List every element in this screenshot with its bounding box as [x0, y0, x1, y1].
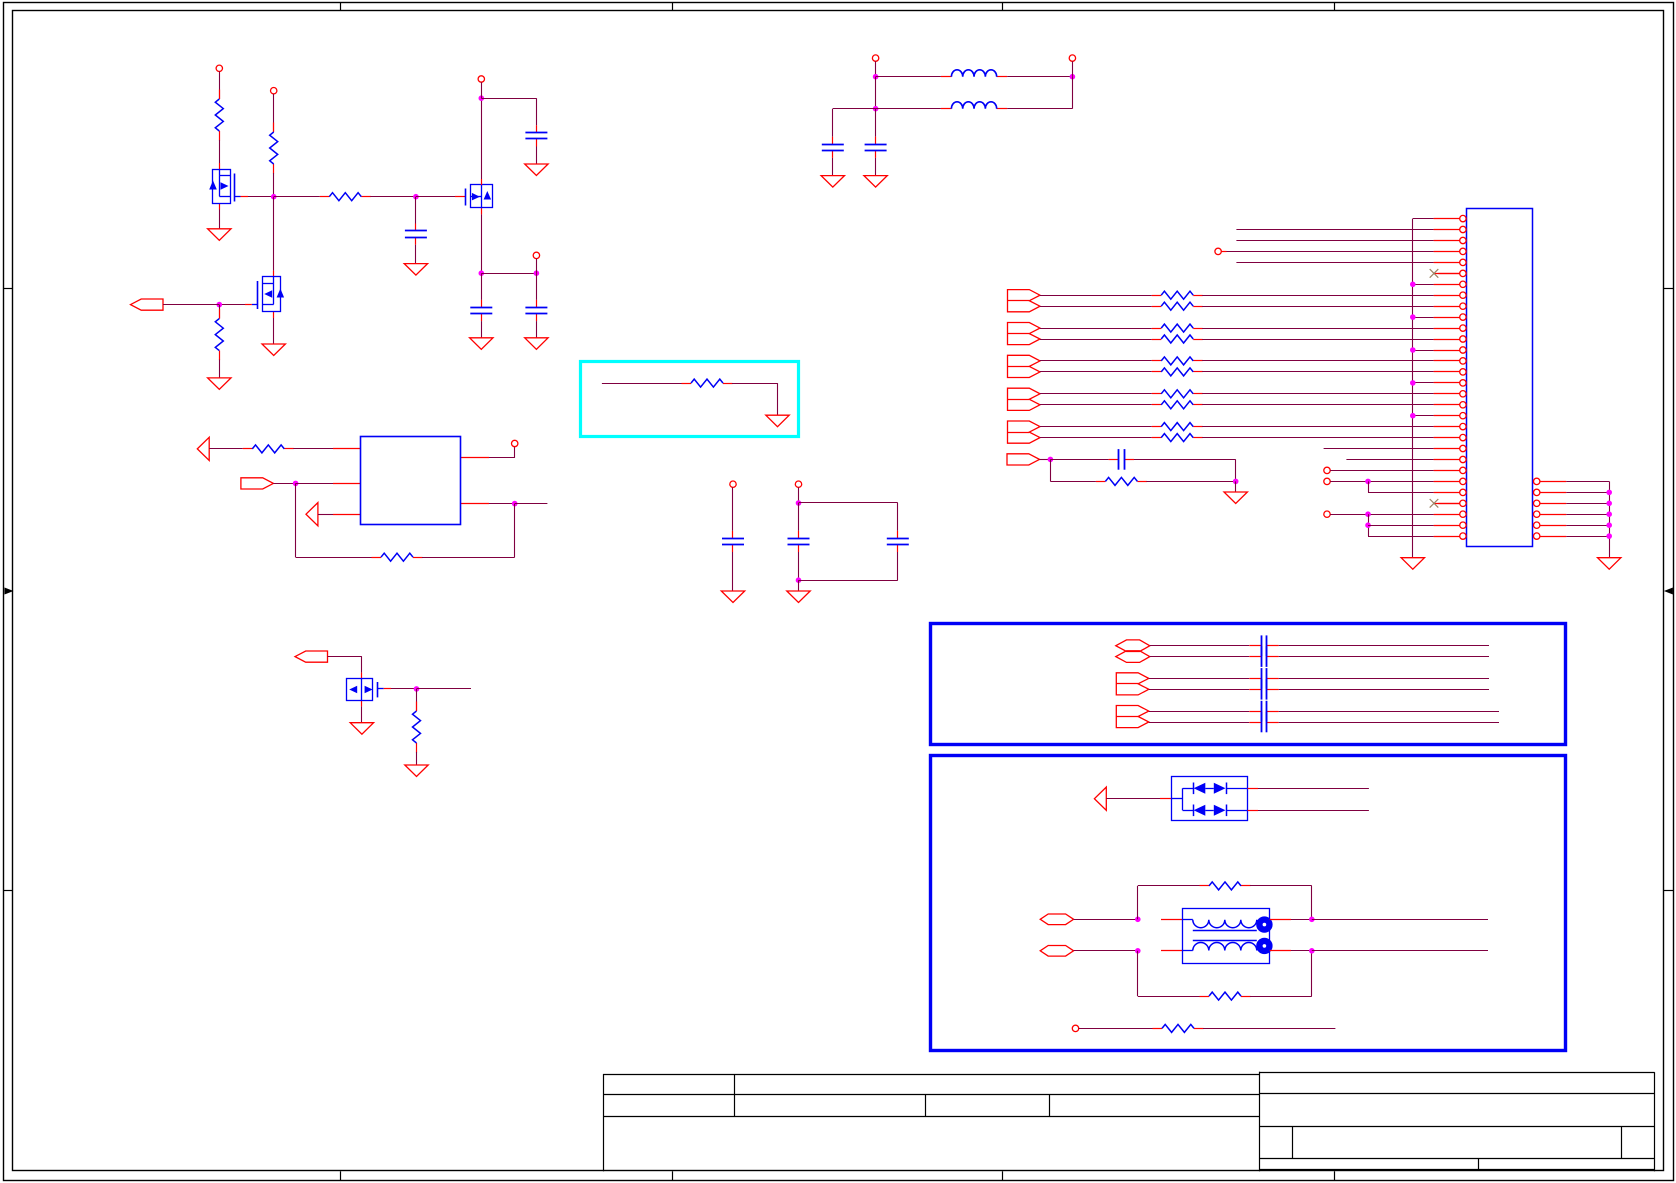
wire ACPAIR2 B to C14	[1149, 689, 1249, 691]
wire pin4	[1227, 251, 1434, 253]
wire node E to C3	[481, 273, 483, 300]
port tag EN	[295, 651, 328, 662]
wire RPAIR1A to pin8	[1202, 295, 1433, 297]
capacitor C16	[1249, 722, 1261, 724]
port tag SHIELD	[1007, 454, 1040, 465]
terminal T7	[730, 481, 736, 487]
wire node D to C1	[481, 98, 536, 100]
wire feedback node G down	[295, 483, 297, 557]
inductor L1	[941, 76, 952, 78]
terminal T9	[872, 55, 878, 61]
junction node L	[873, 74, 879, 80]
wire C14 right	[1279, 689, 1489, 691]
terminal T1	[216, 65, 222, 71]
port diamond LINEN	[1040, 946, 1073, 957]
resistor RPAIR4A	[1152, 393, 1162, 395]
wire node K to ground	[798, 580, 800, 591]
connector J1 body	[1467, 209, 1533, 547]
wire OUT1 to U1 pin3	[318, 514, 333, 516]
terminal T3	[478, 76, 484, 82]
group box 1	[931, 624, 1566, 745]
resistor RPAIR1A	[1152, 295, 1162, 297]
wire C13 right	[1279, 678, 1489, 680]
wire Q4 source to ground	[361, 706, 363, 722]
terminal T6	[512, 440, 518, 446]
wire C4 to ground	[536, 321, 538, 338]
junction node B	[217, 302, 223, 308]
wire R15 to node V	[1250, 996, 1312, 998]
ground below C9	[864, 176, 887, 188]
wire LINEN to node T	[1074, 950, 1138, 952]
wire PAIR3 B to resistor	[1040, 371, 1152, 373]
wire pin2 net stub	[1236, 229, 1433, 231]
wire T7 to C5	[732, 487, 734, 530]
wire EN to Q4 drain	[328, 656, 362, 658]
junction node V	[1309, 948, 1315, 954]
wire CTRL to node G	[273, 483, 295, 485]
wire node P29 to pin29	[1368, 525, 1434, 527]
junction node Q	[1048, 457, 1054, 463]
wire ACPAIR2 A to C13	[1149, 678, 1249, 680]
resistor RPAIR5A	[1152, 426, 1162, 428]
capacitor C6	[798, 531, 800, 539]
wire PAIR3 A to resistor	[1040, 360, 1152, 362]
wire node P30 to pin30	[1368, 536, 1434, 538]
resistor R1	[219, 90, 221, 100]
wire PAIR2 B to resistor	[1040, 339, 1152, 341]
junction bus pin19	[1413, 415, 1434, 417]
ground below node K	[787, 591, 810, 603]
wire stub to R7	[602, 383, 682, 385]
wire T9 to node L	[875, 61, 877, 76]
junction bus pin13	[1413, 350, 1434, 352]
resistor R13	[1096, 481, 1106, 483]
port tag PAIR3	[1008, 355, 1041, 377]
wire L2 to node M	[1007, 108, 1072, 110]
wire T15 to R16	[1079, 1028, 1153, 1030]
tvs diode array D1	[1160, 798, 1171, 800]
port arrow IN1	[197, 437, 209, 460]
wire RPAIR5A to pin20	[1202, 426, 1433, 428]
capacitor C13	[1249, 678, 1261, 680]
junction node U	[1309, 917, 1315, 923]
junction right bus pin28	[1606, 511, 1612, 517]
wire node L to L1	[876, 76, 941, 78]
capacitor C15	[1249, 711, 1261, 713]
wire Q4 gate to node I	[391, 688, 417, 690]
junction node P25	[1365, 479, 1371, 485]
capacitor C10	[1109, 459, 1119, 461]
junction node J	[796, 500, 802, 506]
wire C7 to node K	[897, 552, 899, 580]
wire Q2 gate to node B	[219, 304, 245, 306]
port arrow ESD	[1094, 787, 1106, 810]
ground below node R	[1224, 492, 1247, 504]
capacitor C11	[1249, 645, 1261, 647]
border zone ticks bottom	[340, 1171, 342, 1180]
connector J1 left pins	[1434, 218, 1460, 220]
capacitor C9	[875, 137, 877, 145]
capacitor C14	[1249, 689, 1261, 691]
terminal T2	[271, 88, 277, 94]
wire SHIELD to node Q	[1040, 459, 1051, 461]
resistor R4	[219, 309, 221, 319]
wire node T down loop	[1137, 951, 1139, 996]
wire IN1 to R5	[209, 448, 243, 450]
terminal T8	[795, 481, 801, 487]
wire T10 to node M	[1072, 61, 1074, 76]
wire C16 right	[1279, 722, 1499, 724]
wire node B to R4	[219, 305, 221, 319]
ground below R4	[208, 378, 231, 390]
ground below C3	[470, 338, 493, 350]
wire node V right	[1312, 950, 1488, 952]
ground bus vertical	[1412, 219, 1414, 558]
terminal T10	[1069, 55, 1075, 61]
terminal T4	[533, 252, 539, 258]
junction bus pin7	[1413, 284, 1434, 286]
junction right bus pin30	[1606, 533, 1612, 539]
wire LINEP to node S	[1074, 919, 1138, 921]
wire node Q down to R13	[1050, 459, 1052, 481]
wire T3 to node D	[481, 82, 483, 98]
junction right bus pin27	[1606, 501, 1612, 507]
junction node F	[534, 270, 540, 276]
capacitor C2	[415, 224, 417, 232]
wire node N to C9	[875, 109, 877, 137]
border center arrow right	[1664, 588, 1673, 595]
port tag PAIR2	[1008, 323, 1041, 345]
port tag ACPAIR3	[1116, 706, 1149, 728]
wire C1 to ground	[536, 147, 538, 165]
ground below Q4	[350, 723, 373, 735]
wire choke out A to node U	[1291, 919, 1312, 921]
wire Q3 source down	[481, 214, 483, 273]
resistor RPAIR5B	[1152, 437, 1162, 439]
resistor R14	[1200, 885, 1210, 887]
junction node K	[796, 577, 802, 583]
border center arrow left	[5, 588, 14, 595]
ground below C4	[525, 338, 548, 350]
wire L1 to node M	[1007, 76, 1072, 78]
wire RPAIR5B to pin21	[1202, 437, 1433, 439]
transistor Q1 pmos	[219, 163, 221, 169]
wire pin5 net stub	[1236, 262, 1433, 264]
wire ACPAIR3 B to C16	[1149, 722, 1249, 724]
wire Q3 drain up	[481, 98, 483, 179]
wire PAIR4 A to resistor	[1040, 393, 1152, 395]
wire PAIR1 B to resistor	[1040, 306, 1152, 308]
junction node E	[479, 270, 485, 276]
wire R1 to Q1 drain	[219, 140, 221, 163]
resistor R6 feedback	[372, 557, 382, 559]
wire node U right	[1312, 919, 1488, 921]
wire node H right stub	[515, 503, 548, 505]
wire ACPAIR1 B to C12	[1150, 656, 1249, 658]
wire R13 to node R	[1146, 481, 1235, 483]
capacitor C1	[536, 125, 538, 133]
wire PAIR4 B to resistor	[1040, 404, 1152, 406]
wire ESD to D1	[1106, 798, 1160, 800]
wire node A to Q2 drain	[273, 197, 275, 271]
title block left section	[603, 1074, 1259, 1076]
resistor RPAIR2A	[1152, 328, 1162, 330]
wire D1 out B	[1258, 810, 1369, 812]
junction node C	[413, 194, 419, 200]
terminal T14 pin28	[1324, 511, 1330, 517]
ground below bus	[1401, 558, 1424, 570]
wire choke out B to node V	[1291, 950, 1312, 952]
resistor R17	[416, 702, 418, 712]
wire Q1 gate to node A	[248, 196, 274, 198]
wire C10 to corner	[1134, 459, 1236, 461]
wire node Q to C10	[1050, 459, 1108, 461]
wire PAIR2 A to resistor	[1040, 328, 1152, 330]
border zone ticks top	[340, 3, 342, 12]
transistor Q4 nmos	[361, 673, 363, 679]
wire ACPAIR3 A to C15	[1149, 711, 1249, 713]
highlight box cyan	[581, 362, 799, 437]
wire C6 to node K	[798, 552, 800, 580]
wire PAIR5 B to resistor	[1040, 437, 1152, 439]
wire RPAIR4A to pin17	[1202, 393, 1433, 395]
connector J1 right pins	[1534, 478, 1540, 484]
wire U1 pin5 to node H	[489, 503, 515, 505]
wire T8 to node J	[798, 487, 800, 503]
port tag PAIR1	[1008, 290, 1041, 312]
wire Q2 source to ground	[273, 318, 275, 344]
port tag PAIR5	[1008, 421, 1041, 443]
wire node I to R17	[416, 689, 418, 711]
wire T2 to R2	[273, 94, 275, 132]
wire RPAIR3A to pin14	[1202, 360, 1433, 362]
capacitor C7	[897, 531, 899, 539]
wire RPAIR2A to pin11	[1202, 328, 1433, 330]
wire node P28 down	[1368, 514, 1370, 536]
wire pin3 net stub	[1236, 240, 1433, 242]
capacitor C4	[536, 300, 538, 308]
wire node L to node N	[875, 77, 877, 109]
wire R4 to ground	[219, 360, 221, 378]
wire T1 to R1	[219, 72, 221, 100]
port tag CTRL	[241, 478, 274, 489]
ground below Q2	[262, 344, 285, 356]
terminal T15	[1072, 1025, 1078, 1031]
wire ACPAIR1 A to C11	[1150, 645, 1249, 647]
junction node I	[414, 686, 420, 692]
capacitor C12	[1249, 656, 1261, 658]
wire RPAIR2B to pin12	[1202, 339, 1433, 341]
wire node N to C8 branch	[833, 108, 876, 110]
wire node P25 down to pin26	[1368, 481, 1370, 492]
wire PAIR5 A to resistor	[1040, 426, 1152, 428]
wire T4 to node F	[536, 259, 538, 274]
wire R5 to U1 pin1	[293, 448, 333, 450]
wire R7 to ground corner	[732, 383, 778, 385]
title block right section	[1259, 1072, 1261, 1172]
ground below C5	[721, 591, 744, 603]
port tag ACPAIR2	[1116, 673, 1149, 695]
terminal T11 pin4	[1215, 248, 1221, 254]
wire node I right stub	[417, 688, 472, 690]
wire pin23 net stub	[1346, 459, 1433, 461]
no-connect pin6	[1430, 269, 1439, 278]
wire node J to C6	[798, 503, 800, 531]
wire parallel loop right	[799, 502, 898, 504]
resistor RPAIR4B	[1152, 404, 1162, 406]
wire R17 to ground	[416, 752, 418, 765]
wire pin25	[1330, 481, 1433, 483]
junction node P29	[1365, 522, 1371, 528]
border zone ticks right	[1663, 288, 1673, 290]
wire pin22 net stub	[1324, 448, 1434, 450]
resistor R5	[243, 448, 253, 450]
group box 2	[931, 756, 1566, 1051]
junction node P28	[1365, 511, 1371, 517]
wire node E to node F	[481, 273, 536, 275]
port tag DATA1	[131, 299, 164, 310]
inductor L2	[941, 108, 952, 110]
wire R3 to node C	[370, 196, 416, 198]
resistor RPAIR1B	[1152, 306, 1162, 308]
wire C8 to ground	[832, 158, 834, 176]
ground below R17	[405, 765, 428, 777]
junction node H	[512, 501, 518, 507]
capacitor C5	[732, 531, 734, 539]
ground below C2	[404, 264, 427, 276]
ic U1	[333, 448, 361, 450]
junction right bus pin26	[1606, 490, 1612, 496]
port diamond ACPAIR1	[1116, 640, 1150, 652]
wire R14 to node U	[1250, 885, 1312, 887]
resistor RPAIR3B	[1152, 371, 1162, 373]
wire node A to R3	[274, 196, 320, 198]
resistor R15	[1200, 996, 1210, 998]
wire node F to C4	[536, 273, 538, 300]
ground below C8	[821, 176, 844, 188]
junction node S	[1135, 917, 1141, 923]
wire C2 to ground	[415, 245, 417, 264]
junction right bus pin29	[1606, 522, 1612, 528]
junction node G	[293, 481, 299, 487]
wire C15 right	[1279, 711, 1499, 713]
wire right pins to ground bus	[1566, 481, 1609, 483]
ground below right bus	[1598, 558, 1621, 570]
junction node A	[271, 194, 277, 200]
wire C12 right	[1279, 656, 1489, 658]
resistor RPAIR2B	[1152, 339, 1162, 341]
ground below Q1	[219, 210, 221, 229]
transistor Q2 nmos	[273, 271, 275, 277]
wire C3 to ground	[481, 321, 483, 338]
no-connect pin27	[1430, 499, 1439, 508]
resistor R3	[320, 196, 330, 198]
terminal T13 pin25	[1324, 478, 1330, 484]
wire RPAIR4B to pin18	[1202, 404, 1433, 406]
terminal T12 pin24	[1324, 467, 1330, 473]
wire tag to node B	[163, 304, 219, 306]
transistor Q3 pmos	[455, 196, 465, 198]
wire RPAIR1B to pin9	[1202, 306, 1433, 308]
wire R16 right	[1203, 1028, 1335, 1030]
wire C5 to ground	[732, 552, 734, 591]
ground below C1	[525, 164, 548, 176]
wire node R to ground	[1235, 481, 1237, 492]
wire C9 to ground	[875, 158, 877, 176]
junction node T	[1135, 948, 1141, 954]
common mode choke T1	[1161, 919, 1183, 921]
resistor R7	[682, 383, 692, 385]
wire node C to Q3 gate	[416, 196, 455, 198]
border zone ticks left	[4, 288, 13, 290]
port diamond LINEP	[1040, 914, 1073, 925]
wire R2 to node A	[273, 173, 275, 197]
junction node R	[1233, 479, 1239, 485]
junction node D	[479, 95, 485, 101]
wire PAIR1 A to resistor	[1040, 295, 1152, 297]
resistor RPAIR3A	[1152, 360, 1162, 362]
junction bus pin10	[1413, 317, 1434, 319]
ground in highlight box	[766, 415, 789, 427]
wire node N to L2	[876, 108, 941, 110]
capacitor C3	[481, 300, 483, 308]
wire RPAIR3B to pin15	[1202, 371, 1433, 373]
wire node S up loop	[1137, 886, 1139, 919]
junction bus pin16	[1413, 382, 1434, 384]
capacitor C8	[832, 137, 834, 145]
wire R6 to node H	[422, 557, 515, 559]
port tag PAIR4	[1008, 388, 1041, 410]
wire C11 right	[1279, 645, 1489, 647]
junction node N	[873, 106, 879, 112]
port arrow OUT1	[306, 503, 318, 526]
wire U1 pin4 to T6	[489, 457, 515, 459]
resistor R2	[273, 123, 275, 133]
wire D1 out A	[1258, 788, 1369, 790]
wire pin28	[1330, 514, 1433, 516]
junction node M	[1070, 74, 1076, 80]
resistor R16	[1153, 1028, 1163, 1030]
wire pin24	[1330, 470, 1433, 472]
wire node G to U1 pin2	[296, 483, 333, 485]
wire node C to C2	[415, 197, 417, 224]
